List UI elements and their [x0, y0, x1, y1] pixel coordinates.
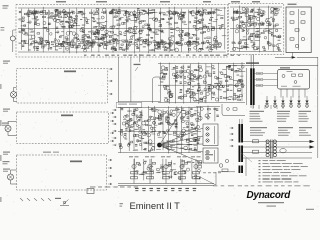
svg-text:Eminent II T: Eminent II T — [130, 200, 181, 211]
svg-text:Dynacord: Dynacord — [247, 190, 292, 201]
